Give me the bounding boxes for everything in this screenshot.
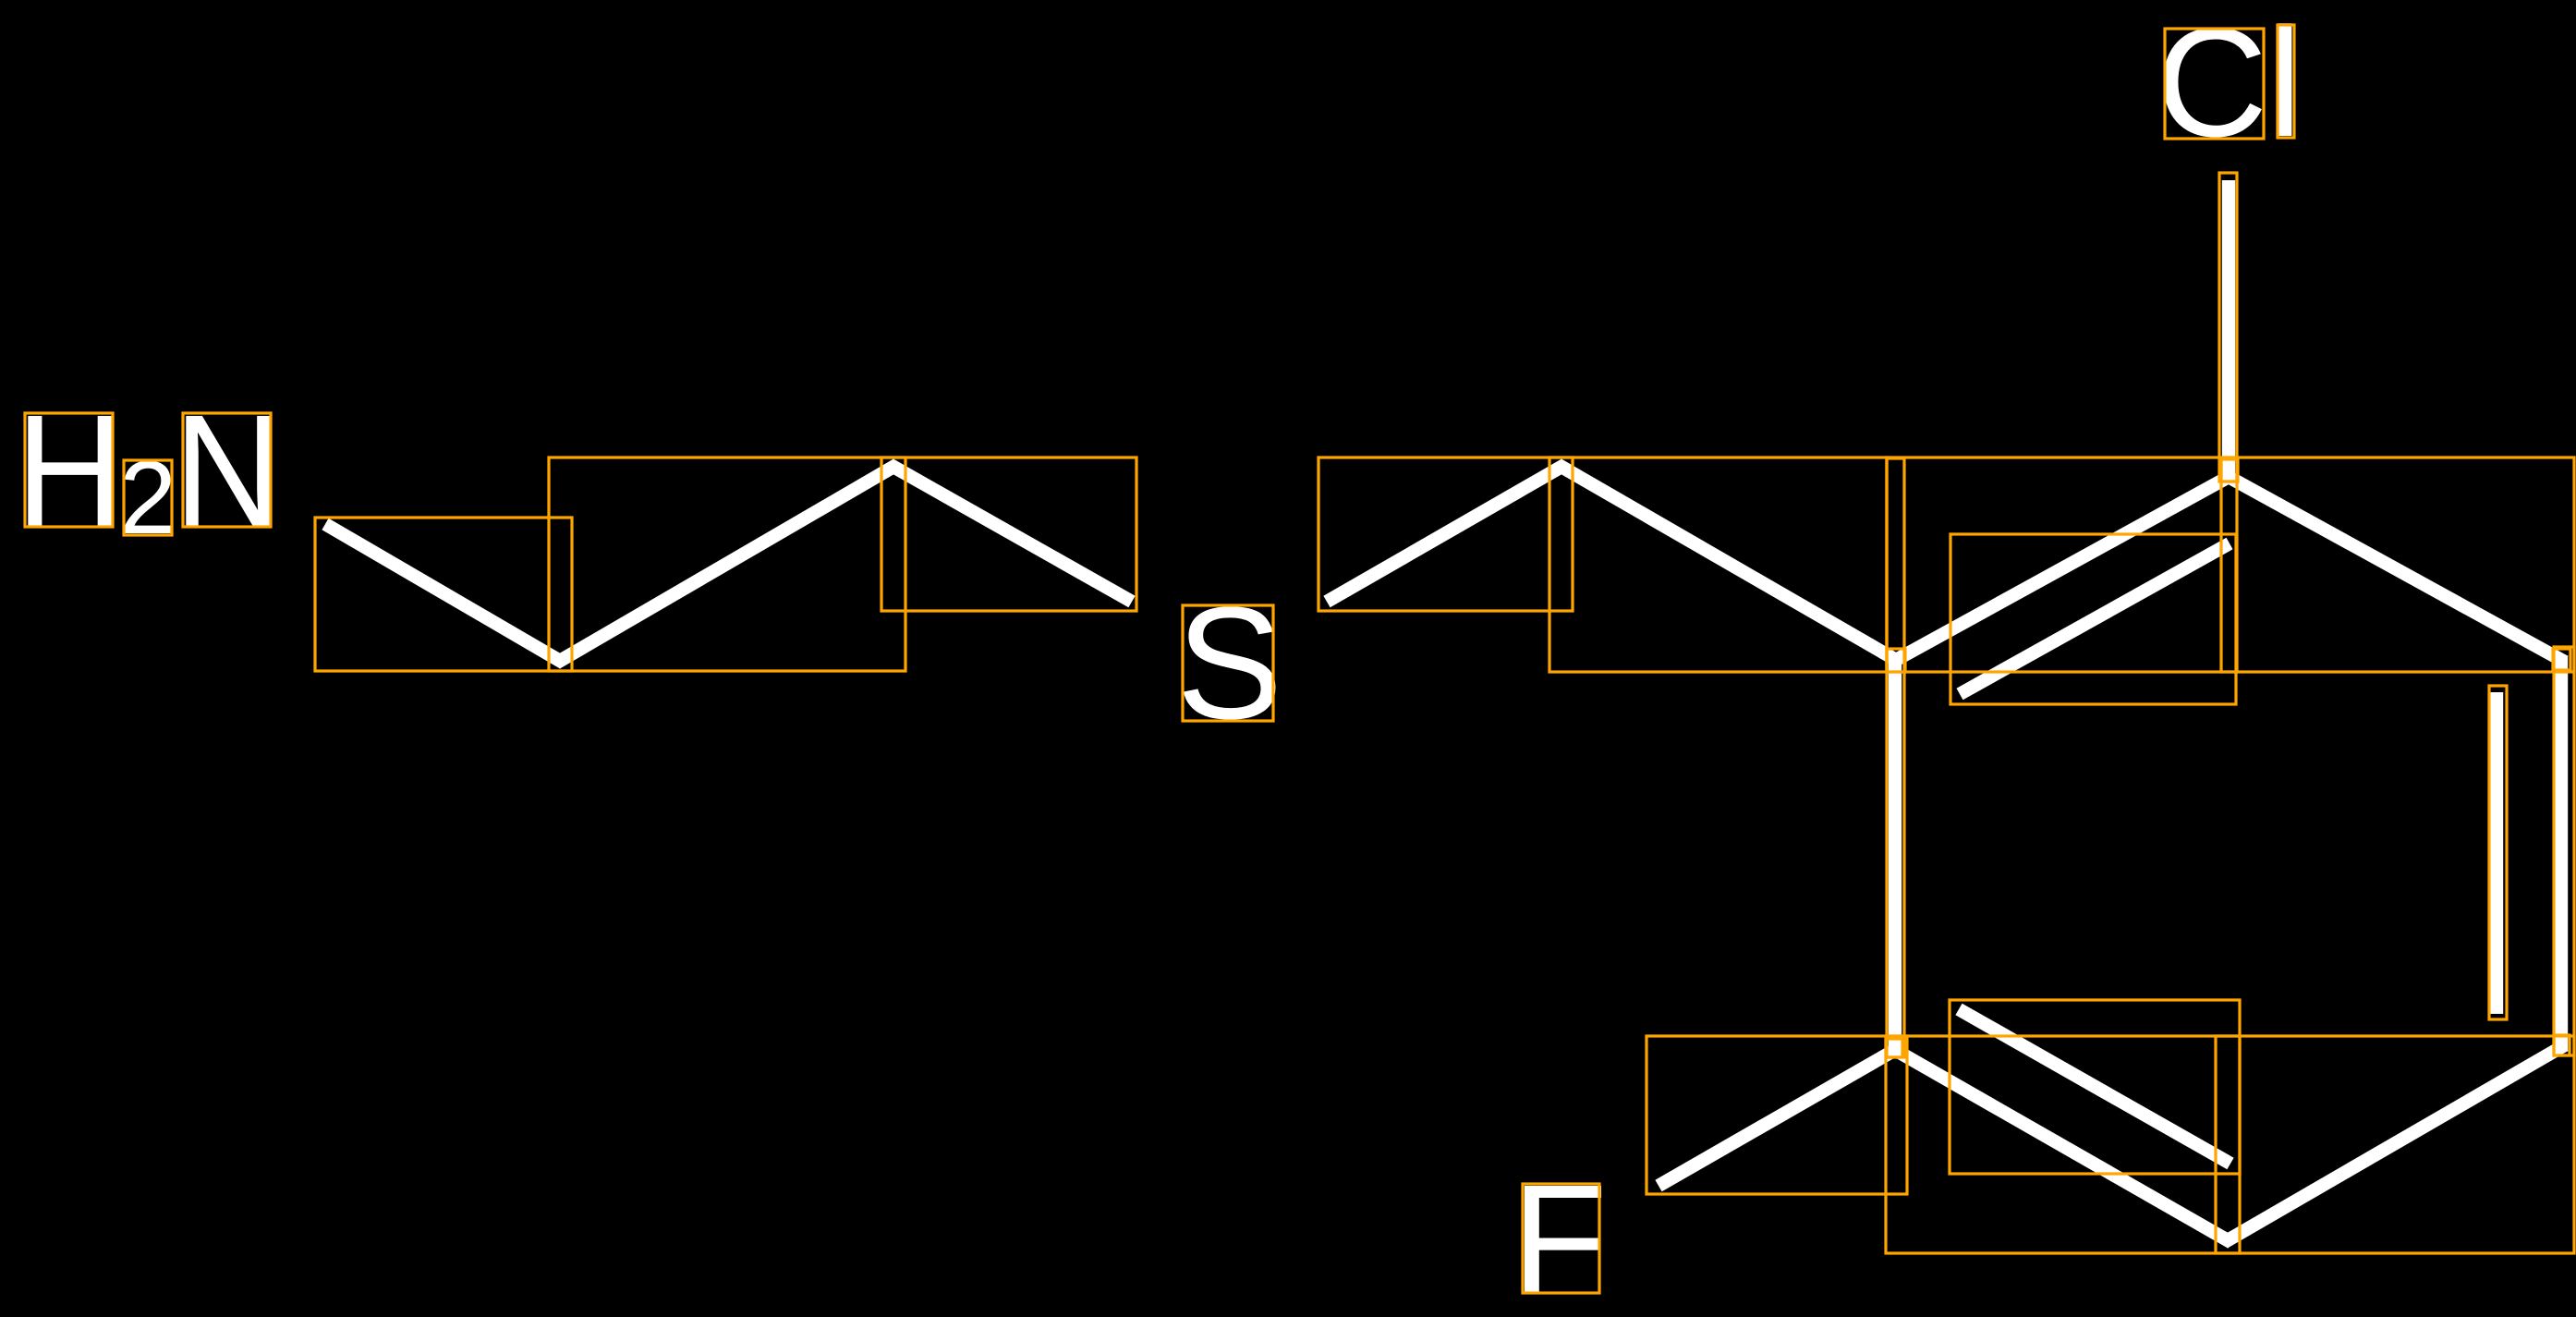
bond C3-C4 (to ring)	[1561, 458, 1897, 667]
box H	[25, 413, 113, 527]
box N	[183, 413, 271, 527]
box bond C5-Cl	[2219, 173, 2237, 482]
box double bond inner bottom-left	[1950, 1000, 2240, 1174]
ring bond C6-C7 right	[2555, 655, 2568, 1052]
box C	[2165, 29, 2264, 139]
bond C2-S	[893, 458, 1135, 607]
box bond L1	[315, 518, 572, 671]
svg-text:S: S	[1176, 573, 1282, 752]
ring bond C9-C4 left	[1889, 660, 1902, 1055]
vertex box RR	[2553, 649, 2570, 670]
bond C5-Cl	[2222, 180, 2235, 477]
double bond inner line C4=C5	[1957, 538, 2233, 701]
ring bond C8-C9 bottom-left	[1888, 1046, 2228, 1249]
bond C1-C2	[560, 458, 894, 668]
bond S-C3	[1323, 458, 1561, 607]
double bond inner line C6=C7	[2490, 692, 2503, 1014]
vertex box V2	[1887, 649, 1905, 672]
double bond inner line C8=C9	[1955, 1004, 2233, 1170]
box bond L3	[881, 457, 1136, 611]
ring bond C7-C8 bottom-right	[2228, 1043, 2569, 1249]
box F	[1523, 1184, 1599, 1293]
box bond ring right vertical	[2554, 647, 2574, 1055]
box bond L5	[1549, 457, 1887, 672]
box S	[1183, 605, 1273, 721]
box bond ring bottom-right	[2216, 1036, 2574, 1253]
bond C9-F	[1655, 1044, 1898, 1192]
vertex box V3	[1886, 1039, 1902, 1057]
box bond C4-F	[1646, 1036, 1907, 1194]
ring bond C4-C5 top-left	[1895, 469, 2229, 667]
svg-text:2: 2	[119, 440, 176, 555]
box l	[2278, 25, 2294, 138]
box double bond inner right	[2489, 686, 2507, 1019]
bond N-C1	[322, 518, 560, 669]
box double bond inner top-left	[1950, 534, 2236, 704]
box bond L2	[549, 457, 905, 671]
svg-text:H: H	[16, 381, 124, 560]
vertex box RB	[2554, 1035, 2570, 1055]
svg-text:N: N	[174, 381, 282, 560]
box bond ring top-left	[1887, 457, 2237, 672]
box 2	[124, 460, 172, 535]
vertex box RT	[2221, 459, 2238, 482]
box bond ring top-right	[2221, 457, 2574, 672]
ring bond C5-C6 top-right	[2229, 469, 2569, 664]
box bond ring bottom-left	[1886, 1036, 2240, 1253]
box bond L4	[1318, 457, 1573, 611]
box bond ring-left vertical	[1887, 458, 1904, 1057]
